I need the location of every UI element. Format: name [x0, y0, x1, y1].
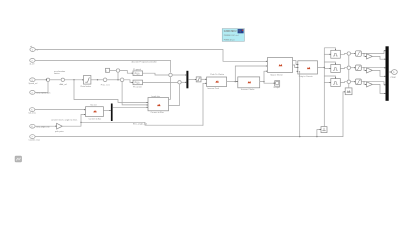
wire gain r2 to pwm bar: [372, 70, 385, 76]
svg-text:limiter: limiter: [54, 72, 60, 75]
mux bar 1: [186, 71, 188, 89]
wire mult circle down to observer in2: [122, 82, 148, 105]
Clarke transform block 2: [238, 77, 260, 91]
svg-text:Prec. 0..5: Prec. 0..5: [101, 83, 111, 86]
junction B out: [324, 67, 325, 68]
wire PI2 to sum2: [143, 81, 178, 83]
wire PI1 to sum1: [143, 73, 169, 75]
gain row2: [367, 68, 373, 73]
svg-text:PMSM FOC ctrl: PMSM FOC ctrl: [224, 34, 239, 37]
block B (duty cycle scaling): [298, 61, 318, 78]
junction on row: [73, 79, 74, 80]
wire gain5 theta line to Park: [62, 122, 203, 126]
svg-text:Duty to Counts: Duty to Counts: [299, 75, 313, 78]
svg-text:Iab_mea: Iab_mea: [29, 112, 37, 114]
wire saturation to Park1: [201, 78, 206, 80]
row2 branch top: [324, 62, 335, 65]
branch theta up to lookup in2: [81, 115, 85, 123]
inport In1 (speed reference): [30, 45, 39, 52]
sum 1: [169, 73, 172, 76]
wire vertical feeding sum bottoms: [348, 55, 350, 88]
wire B out split vertical: [318, 48, 325, 127]
row1 branch top: [324, 48, 335, 51]
junction to scope: [263, 81, 264, 82]
input arrowheads at block ports: [55, 49, 391, 130]
svg-text:flux est: flux est: [90, 104, 97, 107]
wire sum2 to mux bar1: [181, 81, 186, 83]
wire up to B in3: [299, 71, 300, 136]
wire sum r2 to sat r2: [351, 67, 356, 69]
bottom left model badge icon: [15, 156, 22, 162]
sum row2: [347, 66, 350, 69]
wire observer out1 up to sum1 bottom: [169, 77, 171, 99]
annotation box cyan: [222, 29, 244, 42]
rounding block circle: [101, 78, 111, 86]
wire sum r3 to sat r3: [351, 81, 356, 83]
row1 branch mid: [324, 53, 330, 55]
gain triangle 5: [55, 123, 64, 133]
wire sumC to PI block1: [120, 71, 133, 74]
wire Park1 out to Park2: [227, 81, 238, 83]
gain row1: [367, 54, 373, 59]
mux bar 2: [111, 104, 113, 122]
label acceleration limiter: [54, 70, 66, 75]
delay block bottom: [321, 127, 327, 133]
wire In2 down into sum1 top: [35, 60, 170, 72]
svg-text:Counter_max: Counter_max: [29, 139, 40, 142]
wire sat r1 direct to pwm bar: [361, 51, 385, 54]
junction r2: [363, 67, 364, 68]
svg-text:TI: TI: [238, 29, 241, 33]
wire sat r2 direct to pwm bar: [361, 67, 385, 69]
wire sumA to sumB: [50, 79, 61, 81]
wire round to mult circle: [107, 79, 120, 81]
wire gain r3 to pwm bar: [372, 84, 385, 93]
svg-text:Park To Clarke: Park To Clarke: [210, 73, 224, 76]
row3 branch top: [324, 76, 335, 79]
wire bar2 to observer in3: [112, 106, 147, 108]
svg-text:Current to flux: Current to flux: [89, 117, 102, 120]
wire rate limiter to round circle: [91, 79, 103, 81]
svg-text:Inverse Clarke: Inverse Clarke: [241, 88, 255, 91]
wire c2 to sum r2: [340, 67, 347, 70]
row2 branch mid: [324, 68, 330, 70]
svg-text:Current to Flwr: Current to Flwr: [151, 111, 165, 114]
inport In4: [30, 91, 51, 95]
junction In6 line to delay: [316, 136, 317, 137]
svg-text:Elec_angle_rad: Elec_angle_rad: [133, 123, 147, 125]
lookup table block: [86, 104, 104, 121]
junction theta to lookup: [80, 122, 81, 123]
compare block row1: [331, 50, 341, 58]
svg-text:id_ref: id_ref: [30, 62, 35, 65]
junction r1: [363, 53, 364, 54]
inport In5 (angle): [30, 124, 50, 128]
observer block M: [148, 96, 169, 114]
wire row into PI block2: [124, 80, 133, 83]
wire A out1 to B in1: [293, 61, 299, 65]
sat block row2: [356, 65, 362, 71]
svg-text:Speed_ref: Speed_ref: [29, 82, 38, 85]
svg-text:C2000 MCU: C2000 MCU: [224, 31, 237, 33]
junction r3: [363, 81, 364, 82]
svg-text:Mea_angle_rad: Mea_angle_rad: [36, 125, 49, 128]
inport In7 current: [29, 108, 37, 115]
junction feeding sumC: [117, 79, 118, 80]
svg-text:bemf obs: bemf obs: [152, 96, 160, 98]
svg-text:w*: w*: [37, 50, 39, 52]
wire sat r2 down to gain r2: [364, 68, 366, 71]
sat block row1: [356, 51, 362, 57]
wire A out2 to B in2: [293, 65, 299, 68]
saturation block small: [196, 77, 201, 82]
sum row3: [347, 80, 350, 83]
sum B (Add): [60, 78, 68, 86]
junction In6 line to block B in3: [299, 136, 300, 137]
inport In3 (speed ref): [29, 78, 38, 85]
svg-text:Space Vector: Space Vector: [270, 73, 283, 76]
sat block row3: [356, 79, 362, 85]
compare block row3: [331, 79, 341, 87]
svg-text:Add_ref: Add_ref: [60, 83, 68, 86]
wire sum1 to mux bar1: [172, 74, 186, 76]
Park transform block (Inverse Park): [207, 73, 227, 90]
svg-text:PI current: PI current: [133, 85, 142, 88]
inport In2: [30, 59, 36, 66]
svg-text:convert mech. angle to elect.: convert mech. angle to elect.: [51, 118, 78, 121]
block A (PWM reference generator): [268, 58, 293, 77]
branch up to block A in2: [235, 66, 267, 82]
svg-text:PI(z): PI(z): [135, 83, 140, 85]
svg-text:Inverse Park: Inverse Park: [207, 87, 220, 90]
svg-text:discrete PI speed controller: discrete PI speed controller: [132, 60, 157, 63]
mult circle on row: [120, 78, 124, 82]
wire In1 to block A in1: [35, 50, 267, 62]
sum A: [46, 78, 50, 81]
PI block1: [133, 69, 143, 76]
svg-text:pole pairs: pole pairs: [55, 131, 64, 133]
row3 branch mid: [324, 82, 330, 84]
wire In4 up into sumA bottom: [35, 82, 48, 93]
sum row1: [347, 52, 350, 55]
inport In6: [29, 135, 40, 142]
wire lookup out to mux bar2: [103, 110, 110, 112]
bottom small block feeding sums: [345, 88, 352, 95]
compare block row2: [331, 65, 341, 73]
wire gain r1 to pwm bar: [372, 56, 385, 59]
svg-text:Scope1: Scope1: [273, 87, 281, 89]
sum C: [116, 69, 119, 72]
wire unit delay to sumC: [110, 70, 117, 72]
wire sumB to rate limiter: [65, 79, 84, 81]
theta wire into Park1 in2: [203, 83, 206, 126]
svg-text:PI speed: PI speed: [133, 69, 141, 71]
wire observer out2 up to sum2 bottom: [169, 84, 180, 105]
wire c1 to sum r1: [340, 53, 347, 56]
outport oval: [391, 70, 398, 79]
junction after rate limiter: [97, 79, 98, 80]
wire c3 to sum r3: [340, 81, 347, 84]
pwm mux big bar: [386, 46, 389, 101]
svg-text:Rate limiter: Rate limiter: [81, 85, 92, 88]
wire up to delay block left: [317, 130, 321, 137]
wire In7 to lookup in1: [35, 109, 85, 111]
svg-text:PWM: PWM: [391, 77, 396, 79]
PI block2: [133, 80, 143, 88]
wire Park2 out up to block A in3: [260, 71, 267, 81]
svg-text:Mea_speed_rpm: Mea_speed_rpm: [36, 92, 51, 95]
wire sat r1 down to gain r1: [364, 54, 366, 57]
wire bar to outport: [389, 71, 392, 73]
wire sum r1 to sat r1: [351, 53, 356, 55]
wire In5 to gain5: [35, 125, 56, 127]
wire sat r3 down to gain r3: [364, 82, 366, 85]
unit delay square: [106, 68, 110, 72]
junction on Park1-Park2 wire: [235, 81, 236, 82]
gain row3: [367, 82, 373, 87]
wire row to observer in1: [74, 80, 148, 103]
wire junction up to sumC: [117, 72, 119, 79]
sum 2: [178, 81, 181, 84]
wire mux1 to saturation: [188, 79, 196, 81]
svg-text:PWM driver: PWM driver: [224, 38, 235, 41]
wire In3 to sumA: [35, 79, 46, 81]
rate limiter block: [81, 76, 92, 89]
svg-text:PI(z): PI(z): [135, 73, 140, 75]
scope block: [273, 81, 281, 90]
long wire In6 bottom bus: [35, 92, 345, 137]
wire sat r3 direct to pwm bar: [361, 82, 385, 85]
wire to scope: [264, 82, 274, 84]
